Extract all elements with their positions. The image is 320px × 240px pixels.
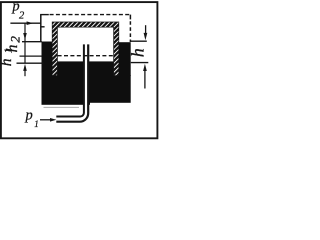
left tick mid level	[20, 55, 42, 57]
svg-text:p: p	[25, 107, 33, 123]
left tick inner level	[17, 62, 44, 64]
right dimension up arrowhead	[143, 64, 147, 71]
liquid inside bell	[57, 61, 113, 76]
imaginary level corner vertical solid	[129, 15, 131, 20]
right dimension down arrow stem	[145, 25, 147, 34]
svg-text:2: 2	[8, 36, 23, 43]
svg-text:2: 2	[19, 10, 25, 21]
right dimension up arrow stem	[144, 70, 146, 89]
bell walls (hatched)	[52, 22, 119, 76]
p2 level line arrowhead	[27, 21, 34, 25]
left dimension down arrowhead	[23, 33, 27, 40]
svg-text:h: h	[128, 48, 148, 57]
imaginary level dashed vertical	[129, 21, 131, 42]
dashed liquid level inside bell	[58, 55, 114, 57]
imaginary level dashed horizontal	[50, 14, 130, 16]
left dimension arrow faint tail	[24, 40, 26, 42]
imaginary level step: vertical solid	[40, 14, 42, 42]
p1 arrowhead	[50, 118, 56, 122]
liquid body below bell rim (left of tube)	[42, 75, 91, 105]
p1 arrow line	[40, 119, 51, 121]
svg-text:h: h	[0, 58, 15, 66]
imaginary level step: horizontal solid	[40, 14, 49, 16]
svg-text:1: 1	[4, 48, 15, 53]
tube left/top line	[56, 44, 84, 116]
liquid left column	[42, 42, 53, 77]
svg-text:1: 1	[34, 119, 39, 129]
left up arrow below inner level tick	[23, 64, 27, 71]
left tick outer level	[22, 41, 42, 43]
left up arrow stem	[24, 70, 26, 77]
left dimension line	[24, 24, 26, 64]
right tick inner level	[131, 62, 149, 64]
liquid body below bell rim (right of tube)	[90, 75, 131, 103]
tube interior (white channel)	[56, 45, 86, 120]
vessel bottom faint line	[44, 106, 80, 108]
liquid right column	[119, 42, 131, 76]
right tick outer level	[131, 40, 147, 42]
vessel wall stub	[41, 26, 45, 28]
right dimension down arrowhead	[144, 33, 148, 40]
border frame	[1, 2, 158, 138]
tube right/bottom line	[56, 44, 88, 121]
p2 level line	[10, 22, 40, 24]
